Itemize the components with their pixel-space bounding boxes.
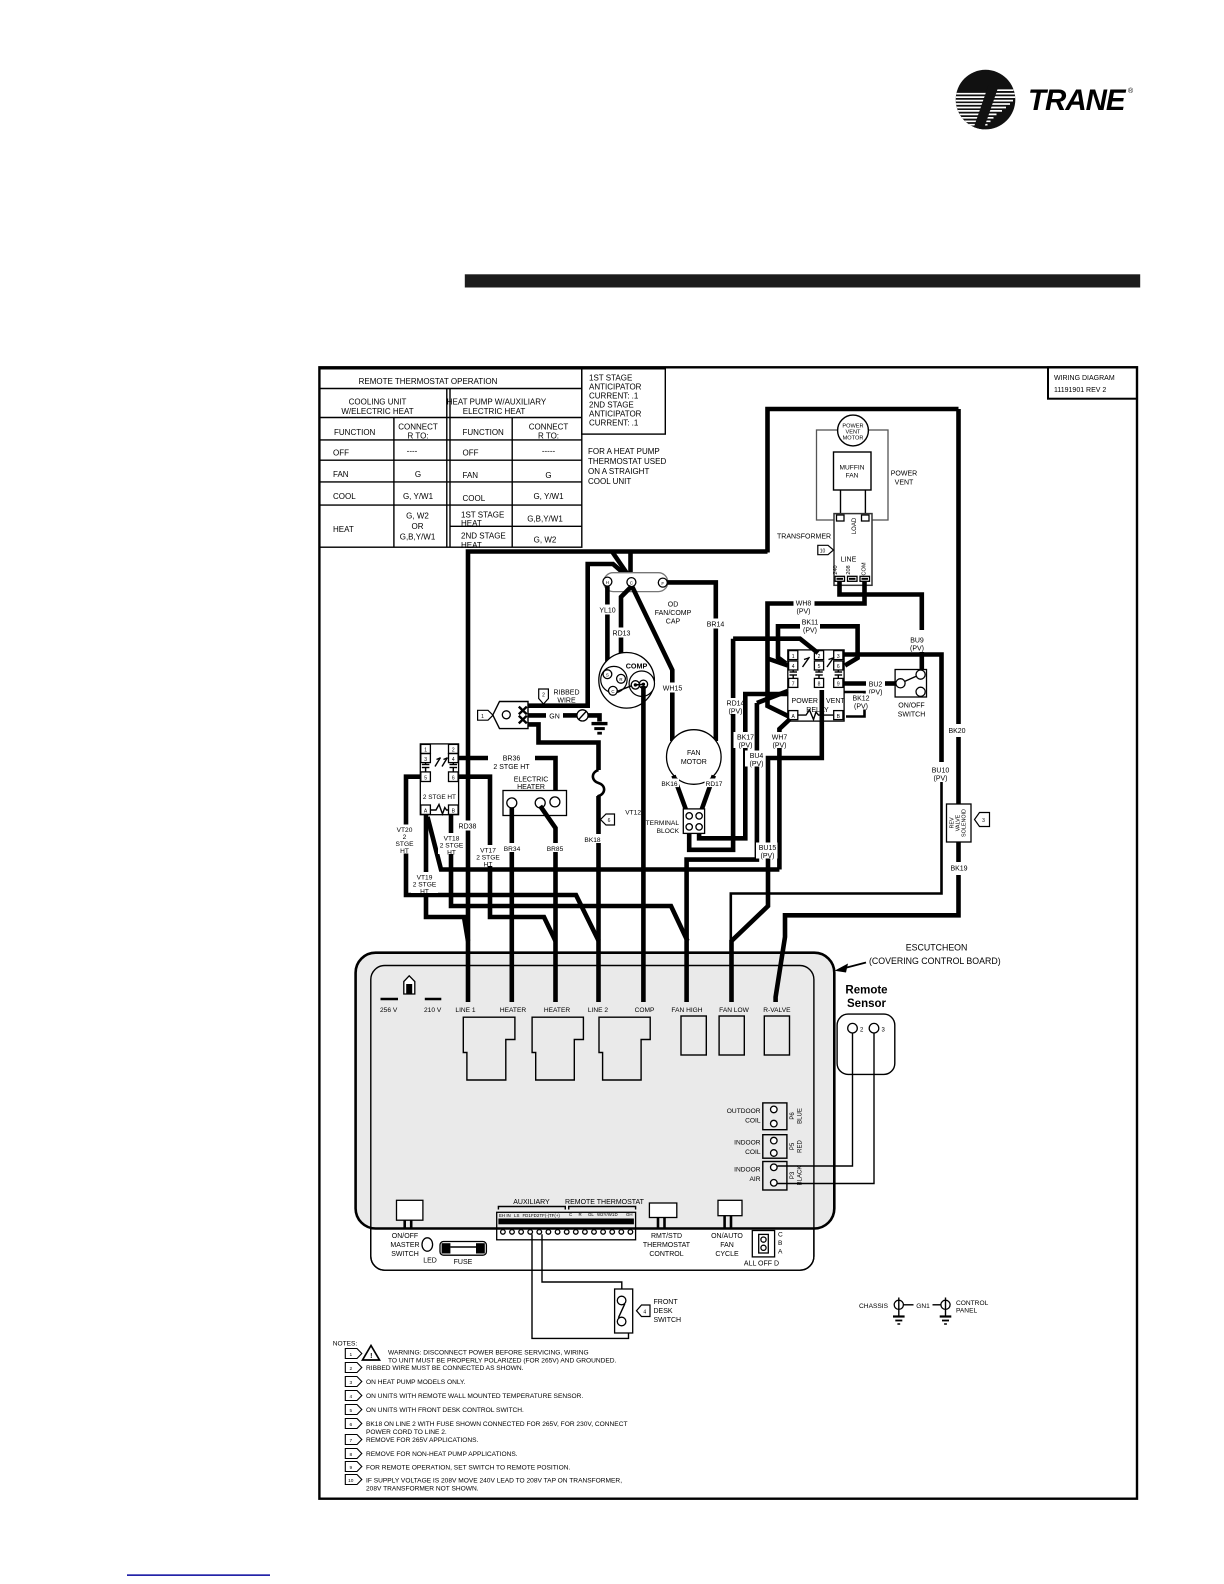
svg-text:P5: P5 [790, 1142, 796, 1150]
svg-text:LOAD: LOAD [852, 517, 858, 534]
svg-text:RIBBED: RIBBED [553, 690, 579, 697]
svg-text:H: H [606, 580, 609, 585]
svg-text:FUNCTION: FUNCTION [463, 428, 505, 437]
electric heater [503, 791, 567, 816]
svg-text:A: A [778, 1249, 783, 1256]
svg-text:9: 9 [837, 682, 840, 688]
svg-text:WIRE: WIRE [557, 698, 576, 705]
wire BK19 solenoid to R-VALVE [956, 842, 961, 862]
wire plug to cap C [528, 564, 631, 706]
svg-text:1: 1 [481, 714, 484, 720]
svg-text:ELECTRIC: ELECTRIC [514, 777, 549, 784]
label 256 V [381, 998, 399, 1001]
label VT20 2 STGE HT [396, 825, 415, 856]
svg-text:FAN: FAN [720, 1242, 734, 1249]
svg-text:1: 1 [792, 654, 795, 660]
svg-text:FUSE: FUSE [454, 1259, 473, 1266]
svg-text:BK12: BK12 [852, 696, 869, 703]
svg-text:(PV): (PV) [739, 743, 753, 750]
wire BU2 relay9 to switch [844, 681, 866, 686]
svg-text:BLOCK: BLOCK [657, 828, 680, 835]
svg-text:RMT/STD: RMT/STD [651, 1233, 682, 1240]
svg-text:ON/OFF: ON/OFF [392, 1233, 418, 1240]
svg-text:LS: LS [514, 1213, 519, 1218]
warning triangle [363, 1346, 380, 1361]
svg-text:REMOVE FOR NON-HEAT PUMP APPLI: REMOVE FOR NON-HEAT PUMP APPLICATIONS. [366, 1451, 518, 1458]
fan motor [667, 730, 722, 785]
svg-text:FUNCTION: FUNCTION [334, 428, 376, 437]
footer link line [127, 1574, 270, 1576]
svg-text:BU9: BU9 [910, 638, 924, 645]
svg-text:FRONT: FRONT [654, 1299, 679, 1306]
svg-text:ELECTRIC HEAT: ELECTRIC HEAT [463, 407, 526, 416]
svg-text:COMP: COMP [626, 662, 648, 671]
note flag 6 [345, 1419, 362, 1429]
svg-text:7: 7 [349, 1438, 352, 1444]
wire BU10: relay3 right, down, across, to FAN LOW [844, 655, 941, 763]
wire BR14 cap F to fan motor [667, 582, 716, 741]
svg-text:ALL OFF D: ALL OFF D [744, 1261, 779, 1268]
svg-text:COOLING UNIT: COOLING UNIT [349, 398, 407, 407]
svg-text:POWER: POWER [891, 471, 917, 478]
label VT18 2 STGE HT [438, 833, 465, 857]
svg-text:CONTROL: CONTROL [649, 1251, 683, 1258]
svg-text:TRANSFORMER: TRANSFORMER [777, 534, 831, 541]
svg-text:RD17: RD17 [706, 781, 723, 788]
svg-text:C: C [778, 1232, 783, 1239]
svg-text:CONNECT: CONNECT [398, 423, 438, 432]
svg-text:G, W2: G, W2 [534, 536, 557, 545]
note flag 5 [345, 1405, 362, 1415]
svg-text:240: 240 [833, 565, 839, 574]
wire bus to cap C diagonal [612, 552, 631, 579]
svg-text:REMOTE THERMOSTAT OPERATION: REMOTE THERMOSTAT OPERATION [359, 377, 498, 386]
svg-text:R TO:: R TO: [538, 432, 559, 441]
svg-text:WIRING DIAGRAM: WIRING DIAGRAM [1054, 375, 1115, 382]
svg-text:4: 4 [643, 1310, 646, 1316]
connector block LINE1/HEATER [463, 1017, 515, 1080]
svg-text:Sensor: Sensor [847, 998, 887, 1010]
svg-text:HEATER: HEATER [544, 1007, 570, 1014]
wire WH7 relay A down [779, 719, 790, 870]
connector FAN HIGH [681, 1016, 706, 1055]
svg-text:(PV): (PV) [761, 853, 775, 860]
svg-text:BK19: BK19 [950, 866, 967, 873]
svg-text:HEATER: HEATER [517, 784, 545, 791]
svg-text:HEAT PUMP W/AUXILIARY: HEAT PUMP W/AUXILIARY [447, 398, 547, 407]
svg-text:BK18 ON LINE 2 WITH FUSE SHOWN: BK18 ON LINE 2 WITH FUSE SHOWN CONNECTED… [366, 1421, 628, 1428]
connector P3 indoor air [763, 1162, 787, 1191]
svg-text:ON UNITS WITH REMOTE WALL MOUN: ON UNITS WITH REMOTE WALL MOUNTED TEMPER… [366, 1393, 583, 1400]
svg-text:8: 8 [349, 1452, 352, 1458]
svg-text:2: 2 [452, 748, 455, 754]
svg-text:W/ELECTRIC HEAT: W/ELECTRIC HEAT [341, 407, 413, 416]
svg-text:3: 3 [424, 757, 427, 763]
svg-text:6: 6 [452, 775, 455, 781]
svg-text:ANTICIPATOR: ANTICIPATOR [589, 410, 642, 419]
svg-text:BLUE: BLUE [798, 1108, 804, 1124]
wire BU9 lower [919, 652, 924, 670]
svg-text:F: F [661, 581, 664, 586]
label BK20 [946, 724, 971, 735]
compressor COMP [599, 653, 655, 709]
wire BK16 motor to terminal block [674, 776, 687, 813]
note flag 2 [539, 689, 549, 704]
note flag 10 [345, 1475, 362, 1485]
svg-text:CHASSIS: CHASSIS [859, 1303, 889, 1310]
svg-text:2 STGE: 2 STGE [440, 843, 464, 850]
svg-text:9: 9 [349, 1465, 352, 1471]
polarity house icon [404, 976, 415, 994]
rmt/std thermostat control connector [649, 1203, 676, 1218]
svg-text:BR14: BR14 [707, 622, 725, 629]
svg-text:FAN HIGH: FAN HIGH [671, 1007, 702, 1014]
svg-text:COOL UNIT: COOL UNIT [588, 477, 631, 486]
svg-text:POWER: POWER [792, 698, 818, 705]
svg-text:BU2: BU2 [869, 682, 883, 689]
connector block HEATER/LINE2 [532, 1017, 583, 1080]
svg-text:3: 3 [982, 818, 985, 824]
on/off master switch connector [397, 1200, 423, 1220]
svg-text:RIBBED WIRE MUST BE CONNECTED: RIBBED WIRE MUST BE CONNECTED AS SHOWN. [366, 1365, 524, 1372]
label RD14 (PV) [723, 698, 747, 716]
wire BR36: pin 4 to electric heater [458, 756, 488, 761]
svg-text:R: R [579, 1212, 582, 1217]
svg-text:COM: COM [862, 562, 868, 575]
svg-text:!: ! [370, 1353, 372, 1360]
label BK12 (PV) [850, 694, 873, 711]
svg-text:BR34: BR34 [504, 846, 521, 853]
svg-text:(PV): (PV) [910, 646, 924, 653]
svg-text:VT17: VT17 [480, 848, 496, 855]
diagram border box [319, 367, 1137, 1498]
svg-text:FAN: FAN [846, 473, 859, 480]
svg-text:HEAT: HEAT [461, 519, 482, 528]
svg-text:2ND STAGE: 2ND STAGE [461, 532, 506, 541]
svg-text:HT: HT [484, 862, 493, 869]
svg-text:EH IN: EH IN [499, 1213, 511, 1218]
svg-text:GN1: GN1 [916, 1303, 930, 1310]
svg-text:G,B,Y/W1: G,B,Y/W1 [400, 533, 436, 542]
wire front desk switch loop 1 [532, 1234, 629, 1338]
svg-text:ON UNITS WITH FRONT DESK CONTR: ON UNITS WITH FRONT DESK CONTROL SWITCH. [366, 1407, 524, 1414]
muffin fan [834, 452, 872, 490]
svg-text:WH7: WH7 [772, 735, 788, 742]
svg-text:TERMINAL: TERMINAL [646, 820, 680, 827]
svg-text:GN: GN [549, 713, 560, 720]
svg-text:OD: OD [668, 602, 679, 609]
connector P6 outdoor coil [763, 1103, 787, 1130]
svg-text:G: G [415, 470, 421, 479]
svg-text:HEAT: HEAT [461, 541, 482, 550]
control board outline [371, 966, 814, 1271]
svg-text:VT12: VT12 [625, 810, 641, 817]
wire BK18 plug to LINE 2 [528, 724, 599, 770]
svg-text:(PV): (PV) [797, 609, 811, 616]
svg-text:COOL: COOL [333, 492, 356, 501]
svg-text:D: D [615, 1212, 618, 1217]
svg-text:MASTER: MASTER [390, 1242, 419, 1249]
svg-text:REMOTE THERMOSTAT: REMOTE THERMOSTAT [565, 1199, 645, 1206]
wire BU4: relay area down to FAN HIGH [757, 691, 788, 703]
svg-text:BU4: BU4 [750, 753, 764, 760]
svg-text:WH15: WH15 [663, 686, 683, 693]
svg-text:R: R [619, 677, 622, 682]
svg-text:2ND STAGE: 2ND STAGE [589, 401, 634, 410]
wire GN to ground [528, 713, 546, 718]
label 210 V [425, 998, 442, 1001]
connector P5 indoor coil [763, 1135, 787, 1159]
wire sensor 3 to indoor air [778, 1033, 875, 1184]
wire bus to cap C vertical [628, 552, 633, 579]
note flag 8 [345, 1449, 362, 1459]
svg-text:6: 6 [837, 664, 840, 670]
Trane logo circle [950, 70, 1016, 130]
all off D switch [752, 1231, 774, 1257]
svg-text:CURRENT: .1: CURRENT: .1 [589, 392, 639, 401]
svg-text:WH8: WH8 [796, 601, 812, 608]
svg-text:LINE 2: LINE 2 [588, 1007, 608, 1014]
svg-text:CONTROL: CONTROL [956, 1300, 989, 1307]
wire WH15 cap C to fan motor [632, 586, 672, 741]
svg-text:FOR A HEAT PUMP: FOR A HEAT PUMP [588, 447, 660, 456]
svg-text:1: 1 [424, 748, 427, 754]
transformer [834, 514, 872, 586]
svg-text:LED: LED [423, 1258, 437, 1265]
svg-text:POWER CORD TO LINE 2.: POWER CORD TO LINE 2. [366, 1429, 447, 1436]
chassis ground [894, 1300, 903, 1309]
svg-text:OFF: OFF [463, 449, 479, 458]
note flag 1 [478, 710, 493, 720]
svg-text:HT: HT [400, 848, 409, 855]
svg-text:2: 2 [349, 1366, 352, 1372]
wire VT20: pin 5 left, down to LINE 2 [406, 777, 599, 941]
wire BK17: relay pin 7 to terminal block [699, 694, 788, 838]
LED [422, 1238, 433, 1251]
svg-text:5: 5 [424, 775, 427, 781]
ground symbol [588, 715, 600, 721]
label BU15 (PV) [756, 843, 778, 861]
svg-text:2: 2 [403, 834, 407, 841]
svg-text:BK18: BK18 [584, 837, 600, 844]
svg-text:VENT: VENT [826, 698, 845, 705]
wire main line left (RD38 run) [468, 552, 768, 1003]
svg-text:6: 6 [608, 818, 611, 824]
svg-text:P6: P6 [790, 1112, 796, 1120]
svg-text:BK17: BK17 [737, 735, 754, 742]
svg-text:11191901 REV 2: 11191901 REV 2 [1054, 387, 1106, 394]
svg-text:2 STGE: 2 STGE [476, 855, 500, 862]
svg-text:4: 4 [452, 757, 455, 763]
label WH7 (PV) [768, 732, 792, 750]
wire VT18: pin B down to FAN HIGH [451, 814, 688, 941]
fuse [440, 1242, 486, 1256]
svg-text:MUFFIN: MUFFIN [840, 465, 865, 472]
svg-text:----: ---- [407, 447, 418, 456]
svg-text:INDOOR: INDOOR [734, 1167, 761, 1174]
svg-text:BU15: BU15 [759, 845, 777, 852]
anticipator current note box [582, 369, 666, 434]
title rule bar [465, 274, 1140, 287]
note flag 9 [345, 1462, 362, 1472]
svg-text:®: ® [1128, 87, 1134, 95]
svg-text:YL10: YL10 [599, 608, 615, 615]
wire BK11 loop [778, 626, 800, 663]
svg-text:BK20: BK20 [948, 728, 965, 735]
svg-text:6: 6 [349, 1422, 352, 1428]
svg-text:(PV): (PV) [750, 761, 764, 768]
svg-text:S: S [606, 672, 609, 677]
svg-text:HEAT: HEAT [333, 525, 354, 534]
svg-text:LINE 1: LINE 1 [455, 1007, 475, 1014]
wire WH8 branch to relay pin 4 [768, 659, 788, 666]
svg-text:5: 5 [818, 664, 821, 670]
svg-text:COIL: COIL [745, 1118, 761, 1125]
svg-text:(COVERING CONTROL BOARD): (COVERING CONTROL BOARD) [869, 956, 1001, 966]
wire GN1 [904, 1304, 914, 1306]
connector R-VALVE [764, 1016, 789, 1055]
ground screw terminal [577, 710, 588, 721]
svg-text:FOR REMOTE OPERATION, SET SWIT: FOR REMOTE OPERATION, SET SWITCH TO REMO… [366, 1465, 570, 1472]
svg-text:2: 2 [818, 654, 821, 660]
svg-text:BLACK: BLACK [798, 1166, 804, 1186]
svg-text:FAN: FAN [463, 471, 479, 480]
svg-text:LINE: LINE [841, 557, 857, 564]
svg-text:208V TRANSFORMER NOT SHOWN.: 208V TRANSFORMER NOT SHOWN. [366, 1486, 479, 1493]
svg-text:OUTDOOR: OUTDOOR [727, 1108, 761, 1115]
svg-text:HT: HT [420, 889, 429, 896]
svg-text:G,B,Y/W1: G,B,Y/W1 [527, 515, 563, 524]
svg-text:RD13: RD13 [613, 631, 631, 638]
svg-text:NOTES:: NOTES: [333, 1341, 358, 1348]
svg-text:INDOOR: INDOOR [734, 1140, 761, 1147]
wire RD14: bus to relay pin 2 and down to terminal block [733, 639, 818, 653]
wire sensor 2 to indoor air [778, 1033, 853, 1166]
svg-text:GL: GL [588, 1212, 594, 1217]
auxiliary terminal strip [497, 1212, 636, 1240]
svg-text:ON A STRAIGHT: ON A STRAIGHT [588, 467, 649, 476]
svg-text:5: 5 [349, 1408, 352, 1414]
label VT19 2 STGE HT [411, 872, 438, 896]
terminal strip pin labels [499, 1212, 633, 1218]
svg-text:256 V: 256 V [380, 1007, 398, 1014]
wire BR85 heater to HEATER connector [540, 806, 555, 1002]
svg-text:THERMOSTAT: THERMOSTAT [643, 1242, 691, 1249]
svg-text:RED: RED [798, 1140, 804, 1153]
title block WIRING DIAGRAM 11191901 REV 2 [1048, 367, 1137, 398]
svg-text:COOL: COOL [463, 494, 486, 503]
wire RD13 cap C to comp R [621, 587, 631, 675]
svg-text:(PV): (PV) [934, 776, 948, 783]
svg-text:TRANE: TRANE [1028, 84, 1127, 117]
wire VT12 comp to COMP connector [641, 686, 646, 1002]
wire VT19: pin A down to LINE 1 [426, 814, 468, 941]
on/off switch [895, 670, 926, 698]
svg-text:7: 7 [792, 682, 795, 688]
svg-text:DESK: DESK [654, 1308, 673, 1315]
front desk switch [615, 1289, 633, 1333]
svg-text:(PV): (PV) [729, 709, 743, 716]
svg-text:4: 4 [792, 664, 795, 670]
power vent motor wiring outline [817, 430, 889, 520]
wire BK12 relay9 to B [844, 692, 864, 717]
svg-text:CYCLE: CYCLE [715, 1251, 739, 1258]
label BU4 (PV) [745, 751, 768, 769]
connector FAN LOW [719, 1016, 744, 1055]
svg-text:ON HEAT PUMP MODELS ONLY.: ON HEAT PUMP MODELS ONLY. [366, 1379, 466, 1386]
note FOR A HEAT PUMP THERMOSTAT [588, 447, 666, 486]
svg-text:4: 4 [349, 1394, 352, 1400]
svg-text:C: C [611, 689, 614, 694]
svg-text:BK16: BK16 [661, 781, 677, 788]
svg-text:IF SUPPLY VOLTAGE IS 208V MOVE: IF SUPPLY VOLTAGE IS 208V MOVE 240V LEAD… [366, 1478, 622, 1485]
svg-text:2 STGE: 2 STGE [413, 882, 437, 889]
note flag 3 [975, 813, 990, 827]
wire relay8 to FAN LOW [732, 690, 822, 1002]
power cord plug [493, 702, 528, 729]
svg-text:SWITCH: SWITCH [898, 712, 926, 719]
note flag 7 [345, 1435, 362, 1445]
svg-text:10: 10 [348, 1478, 354, 1484]
svg-text:8: 8 [818, 682, 821, 688]
power vent enclosure wire box [768, 409, 959, 553]
svg-text:VT19: VT19 [417, 875, 433, 882]
svg-text:G, Y/W1: G, Y/W1 [533, 492, 564, 501]
svg-text:FAN: FAN [333, 470, 349, 479]
control panel ground [941, 1300, 950, 1309]
svg-text:W2Y/W1: W2Y/W1 [597, 1212, 615, 1217]
svg-text:2: 2 [542, 693, 545, 699]
power vent motor [838, 415, 869, 446]
svg-text:MOTOR: MOTOR [843, 436, 864, 442]
note flag 6 [601, 814, 615, 825]
wire 240 to BU9 [840, 581, 922, 630]
wire BR34 heater to HEATER connector [509, 808, 514, 1002]
svg-text:CONNECT: CONNECT [529, 423, 569, 432]
svg-text:G, Y/W1: G, Y/W1 [403, 492, 434, 501]
table REMOTE THERMOSTAT OPERATION [319, 369, 581, 547]
svg-text:SWITCH: SWITCH [391, 1251, 419, 1258]
ribbed wire marks [519, 707, 527, 724]
svg-text:HEATER: HEATER [500, 1007, 526, 1014]
svg-text:3: 3 [837, 654, 840, 660]
svg-text:1: 1 [349, 1352, 352, 1358]
svg-text:COIL: COIL [745, 1149, 761, 1156]
svg-text:10: 10 [820, 549, 826, 555]
svg-text:CAP: CAP [666, 619, 681, 626]
svg-text:1ST STAGE: 1ST STAGE [589, 374, 632, 383]
svg-text:VENT: VENT [895, 480, 914, 487]
svg-text:BK11: BK11 [802, 620, 819, 627]
connector block LINE2/COMP [599, 1017, 650, 1080]
svg-text:-----: ----- [542, 447, 556, 456]
svg-text:OFF: OFF [333, 449, 349, 458]
svg-text:STGE: STGE [396, 841, 415, 848]
svg-text:ON/OFF: ON/OFF [898, 703, 924, 710]
label VT17 2 STGE HT [475, 845, 502, 869]
svg-text:2 STGE HT: 2 STGE HT [423, 794, 456, 801]
wire BU15 bus to 2stge A [428, 817, 780, 870]
rev valve solenoid [947, 804, 972, 842]
note flag 4 [637, 1305, 651, 1317]
escutcheon pointer arrow [843, 963, 866, 969]
svg-text:FAN: FAN [687, 750, 701, 757]
remote sensor [837, 1014, 895, 1074]
note flag 1 [345, 1349, 362, 1359]
on/auto fan cycle connector [718, 1200, 742, 1215]
escutcheon cover [356, 953, 835, 1229]
note flag 4 [345, 1391, 362, 1401]
